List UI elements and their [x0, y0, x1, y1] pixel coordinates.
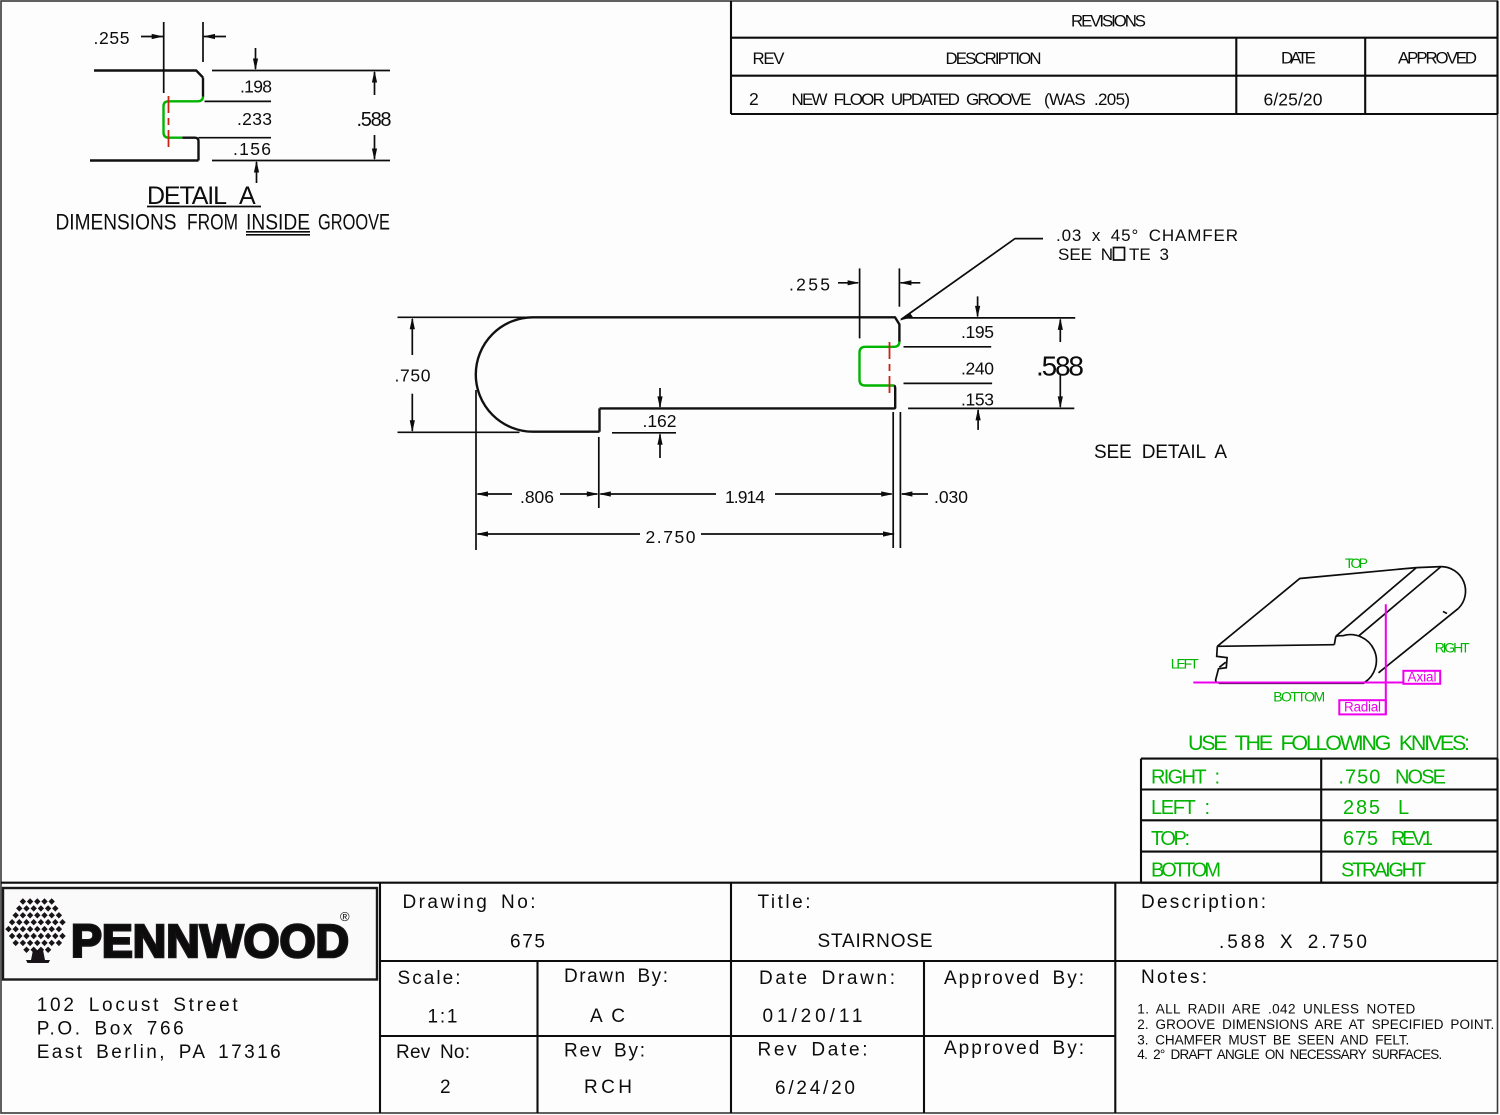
svg-text:.240: .240: [961, 359, 994, 379]
detail A: dim .588 upper arrow: [374, 72, 376, 95]
svg-text:.255: .255: [94, 28, 130, 48]
main profile: bottom lip surface: [600, 407, 894, 409]
main dim .255: extension line 1: [859, 268, 861, 338]
svg-text:APPROVED: APPROVED: [1398, 49, 1477, 68]
svg-text:2: 2: [440, 1077, 451, 1098]
detail A: bottom extension line right: [212, 160, 390, 162]
main profile: bullnose arc: [476, 317, 533, 431]
main dim .255: left arrow: [838, 282, 858, 284]
svg-text:STAIRNOSE: STAIRNOSE: [818, 931, 933, 952]
detail A: bottom surface line: [90, 159, 199, 161]
detail A: dim .588 lower arrow: [374, 135, 376, 159]
svg-text:SEE N: SEE N: [1058, 245, 1113, 264]
iso: far end top flat: [1416, 567, 1441, 568]
svg-text:DATE: DATE: [1281, 49, 1316, 68]
svg-text:1. ALL RADII ARE .042 UNL: 1. ALL RADII ARE .042 UNLESS NOTED: [1137, 1001, 1415, 1016]
svg-text:3. CHAMFER MUST BE SEEN A: 3. CHAMFER MUST BE SEEN AND FELT.: [1137, 1033, 1409, 1048]
bottom dims: left extension line: [475, 390, 477, 550]
iso: top face parallelogram edges: [1217, 568, 1416, 647]
title block grid: [1, 883, 1498, 1113]
svg-text:RIGHT :: RIGHT :: [1151, 766, 1220, 788]
dim .162: lower outside arrow: [659, 434, 661, 458]
pennwood logo box: [3, 888, 377, 980]
main profile: nose bottom flat: [533, 431, 600, 433]
svg-text:NOSE: NOSE: [1395, 766, 1446, 788]
svg-text:675: 675: [510, 932, 545, 953]
iso: groove notch inner diagonal: [1219, 662, 1226, 667]
detail A: groove bottom face black part and lip: [182, 138, 198, 161]
svg-text:®: ®: [340, 909, 350, 924]
iso: axial label box: [1403, 671, 1440, 684]
detail A: groove bottom face extension line: [199, 137, 272, 139]
svg-text:DIMENSIONS: DIMENSIONS: [56, 210, 177, 235]
detail A: outside arrow pointing up at bottom line: [256, 162, 258, 183]
dim .588 lower arrow: [1059, 375, 1061, 407]
dim .806 line left part: [478, 493, 513, 495]
iso: nose top ridge line: [1359, 567, 1441, 636]
detail A: dim .255 left arrow: [141, 36, 163, 38]
detail A: double underline under INSIDE: [246, 232, 310, 235]
svg-text:P.O. Box 766: P.O. Box 766: [37, 1019, 184, 1040]
detail A: top extension line right: [212, 70, 390, 72]
svg-text:TOP:: TOP:: [1151, 828, 1190, 850]
svg-text:FROM: FROM: [187, 210, 238, 235]
svg-text:4. 2° DRAFT ANGLE ON NECE: 4. 2° DRAFT ANGLE ON NECESSARY SURFACES.: [1137, 1047, 1442, 1062]
detail A: dim .255 extension line 1: [163, 22, 165, 93]
detail A: dim .255 right arrow: [204, 36, 226, 38]
svg-text:.153: .153: [961, 390, 994, 410]
extension line below .240 (groove bottom ref): [904, 382, 993, 384]
svg-text:Drawn By:: Drawn By:: [564, 966, 668, 987]
svg-text:.03 x 45° CHAMFER: .03 x 45° CHAMFER: [1056, 226, 1238, 245]
detail A: top surface line with chamfer: [94, 71, 203, 78]
iso: near end step up to nose: [1334, 636, 1336, 644]
detail A: outside arrow pointing down at top line: [255, 48, 257, 69]
extension line below .195 (groove top face): [904, 346, 992, 348]
detail A: right vertical above groove: [202, 78, 204, 97]
detail A: red center mark dash-dot line: [168, 96, 170, 147]
knives table grid: [1141, 759, 1498, 883]
bottom extension line (for .588/.153): [908, 407, 1074, 409]
detail A: title underline: [147, 206, 261, 208]
bottom dims: groove lip extension line: [892, 412, 894, 548]
svg-text:GROOVE: GROOVE: [318, 210, 390, 235]
svg-text:LEFT :: LEFT :: [1151, 797, 1210, 819]
iso: radial label box: [1339, 700, 1386, 714]
svg-text:.162: .162: [643, 411, 677, 431]
svg-text:REV: REV: [753, 49, 786, 68]
svg-text:Axial: Axial: [1408, 669, 1437, 684]
main profile: groove outline (green): [860, 342, 900, 386]
iso: bottom edge: [1219, 682, 1364, 684]
svg-text:.156: .156: [233, 139, 271, 159]
svg-text:Rev By:: Rev By:: [564, 1041, 645, 1062]
dim .162: upper outside arrow: [659, 388, 661, 407]
pennwood logo tree of diamonds: [5, 898, 65, 953]
bottom dims: step extension line: [598, 437, 600, 508]
iso: near nose arc: [1336, 635, 1377, 683]
dim .030 arrow: [902, 493, 928, 495]
svg-text:INSIDE: INSIDE: [246, 210, 310, 235]
svg-text:.750: .750: [395, 366, 431, 386]
main profile: groove lip corner to bottom face: [894, 386, 896, 409]
pennwood logo tree trunk: [26, 950, 50, 963]
detail A: groove top face extension line: [205, 100, 272, 102]
svg-text:.806: .806: [520, 487, 554, 507]
svg-text:DESCRIPTION: DESCRIPTION: [946, 49, 1042, 68]
chamfer leader line with arrow: [901, 239, 1043, 320]
main profile: top surface with right chamfer: [533, 317, 899, 341]
detail A: dim .255 extension line 2: [202, 22, 204, 62]
svg-text:Approved By:: Approved By:: [944, 968, 1084, 989]
svg-text:TOP: TOP: [1345, 555, 1368, 571]
svg-text:675: 675: [1343, 828, 1378, 850]
main dim .255: right arrow: [901, 282, 921, 284]
dim .162: nose bottom extension segment: [612, 432, 676, 434]
svg-text:STRAIGHT: STRAIGHT: [1341, 860, 1426, 882]
svg-text:6/25/20: 6/25/20: [1264, 90, 1323, 110]
svg-text:Scale:: Scale:: [398, 968, 461, 989]
dim 2.750 line right part: [701, 533, 893, 535]
svg-text:REV1: REV1: [1391, 828, 1433, 850]
dim .806 line right part: [560, 493, 597, 495]
svg-text:1.914: 1.914: [725, 487, 765, 507]
svg-text:Radial: Radial: [1344, 700, 1381, 715]
svg-text:102 Locust Street: 102 Locust Street: [37, 995, 239, 1016]
main dim .750: lower arrow: [411, 394, 413, 431]
svg-text:RCH: RCH: [584, 1077, 632, 1098]
svg-text:LEFT: LEFT: [1171, 655, 1199, 671]
svg-text:Rev No:: Rev No:: [396, 1042, 470, 1063]
svg-text:PENNWOOD: PENNWOOD: [71, 915, 349, 967]
svg-text:SEE DETAIL A: SEE DETAIL A: [1094, 442, 1227, 463]
svg-text:(WAS .205): (WAS .205): [1044, 90, 1130, 109]
svg-text:.750: .750: [1338, 766, 1380, 788]
main dim .750: top extension line: [398, 316, 534, 318]
svg-text:Description:: Description:: [1141, 892, 1266, 913]
svg-text:.233: .233: [237, 109, 272, 129]
dim 2.750 line left part: [478, 533, 641, 535]
main dim .255: extension line 2: [898, 268, 900, 306]
svg-text:RIGHT: RIGHT: [1435, 640, 1470, 656]
dim 1.914 line left part: [600, 493, 716, 495]
svg-text:.588: .588: [357, 109, 392, 131]
svg-text:BOTTOM: BOTTOM: [1273, 689, 1325, 705]
svg-text:.198: .198: [240, 77, 272, 97]
svg-text:.030: .030: [934, 487, 968, 507]
main dim .750: upper arrow: [411, 319, 413, 355]
svg-text:NEW FLOOR UPDATED GROOVE: NEW FLOOR UPDATED GROOVE: [792, 90, 1032, 109]
svg-text:Approved By:: Approved By:: [944, 1038, 1084, 1059]
svg-text:L: L: [1398, 797, 1409, 819]
dim .588 upper arrow: [1059, 320, 1061, 343]
iso: magenta radial line: [1385, 604, 1387, 714]
main dim .750: bottom extension line: [398, 431, 520, 433]
bottom dims: right edge extension line: [899, 412, 901, 548]
revisions table grid: [731, 1, 1498, 114]
svg-text:2. GROOVE DIMENSIONS ARE A: 2. GROOVE DIMENSIONS ARE AT SPECIFIED PO…: [1137, 1017, 1494, 1032]
main profile: red center mark in groove: [889, 342, 891, 394]
iso: left end face with groove notch: [1216, 646, 1228, 683]
svg-text:2: 2: [749, 89, 759, 109]
svg-text:Rev Date:: Rev Date:: [758, 1040, 868, 1061]
iso: shoulder ridge line to far corner: [1336, 568, 1417, 637]
dim 1.914 line right part: [775, 493, 892, 495]
iso: small mark on right end face: [1443, 612, 1447, 614]
svg-text:USE THE FOLLOWING KNIVES:: USE THE FOLLOWING KNIVES:: [1188, 731, 1470, 755]
svg-text:Notes:: Notes:: [1141, 967, 1207, 988]
svg-text:285: 285: [1343, 797, 1380, 819]
iso: magenta axial line: [1193, 682, 1403, 684]
top extension line (for .588/.195): [907, 317, 1075, 319]
svg-text:.195: .195: [961, 322, 994, 342]
detail A: groove outline (green machined faces): [164, 97, 204, 138]
iso: nose silhouette line: [1379, 608, 1459, 673]
svg-text:2.750: 2.750: [646, 527, 696, 547]
svg-text:1:1: 1:1: [428, 1007, 458, 1028]
svg-text:BOTTOM: BOTTOM: [1151, 860, 1221, 882]
svg-text:TE 3: TE 3: [1129, 245, 1169, 264]
svg-text:East Berlin, PA 17316: East Berlin, PA 17316: [37, 1042, 281, 1063]
outside arrow pointing up at bottom line: [977, 410, 979, 430]
iso: far end arc: [1441, 567, 1466, 609]
outside arrow pointing down at top line: [977, 296, 979, 316]
main profile: step vertical: [598, 408, 600, 431]
svg-text:REVISIONS: REVISIONS: [1071, 11, 1146, 30]
